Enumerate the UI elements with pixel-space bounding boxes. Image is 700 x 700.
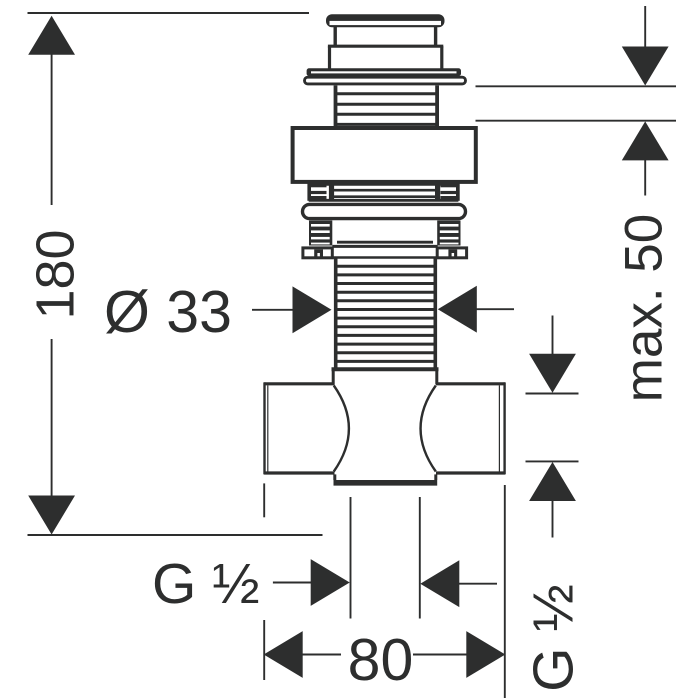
svg-text:Ø 33: Ø 33	[104, 279, 232, 345]
small dim up arrow	[529, 462, 576, 501]
small dim down arrow	[529, 354, 576, 393]
escutcheon	[293, 128, 476, 182]
G1/2 right arrow (points left)	[420, 560, 459, 607]
left pipe	[264, 382, 334, 385]
svg-text:180: 180	[26, 229, 86, 319]
max50 up arrow	[622, 121, 669, 160]
80 right arrow (points right)	[466, 631, 505, 678]
flange B	[305, 77, 466, 84]
Ø33 right arrow (points left)	[438, 286, 477, 333]
locknut	[303, 204, 466, 218]
80 ext right	[504, 485, 506, 698]
max50	[644, 6, 646, 50]
bottom ext line	[28, 534, 323, 536]
G1/2 left arrow (points right)	[311, 559, 350, 606]
max50 down arrow	[622, 47, 669, 86]
cap	[326, 14, 445, 27]
left arc	[334, 386, 349, 472]
top ext line	[28, 12, 310, 14]
washer	[303, 248, 332, 258]
body collar band	[332, 367, 439, 371]
80 ext left	[263, 483, 265, 517]
180 down arrow	[28, 496, 75, 535]
180 up arrow	[28, 16, 75, 55]
right pipe	[436, 382, 505, 385]
G1/2 right arrow line	[458, 583, 497, 585]
svg-text:G ½: G ½	[152, 552, 260, 616]
row3 threads	[309, 221, 332, 246]
body bottom	[333, 474, 336, 480]
Ø33 lines	[252, 309, 293, 311]
neck	[334, 26, 337, 46]
flange A	[307, 68, 461, 76]
right small dim	[552, 316, 554, 357]
port ext lines	[350, 497, 352, 619]
180 dim line	[51, 54, 53, 205]
bottom thread column	[334, 258, 338, 368]
svg-text:80: 80	[348, 627, 414, 693]
svg-text:max. 50: max. 50	[615, 214, 674, 403]
top thread column	[334, 86, 338, 128]
80 dim lines	[301, 654, 341, 656]
Ø33 left arrow (points right)	[293, 286, 332, 333]
collar row1	[309, 183, 459, 186]
right arc	[421, 386, 436, 472]
G1/2 line left	[273, 582, 313, 584]
svg-text:G ½: G ½	[522, 584, 586, 692]
upper block	[328, 45, 443, 48]
80 left arrow (points left)	[264, 631, 303, 678]
